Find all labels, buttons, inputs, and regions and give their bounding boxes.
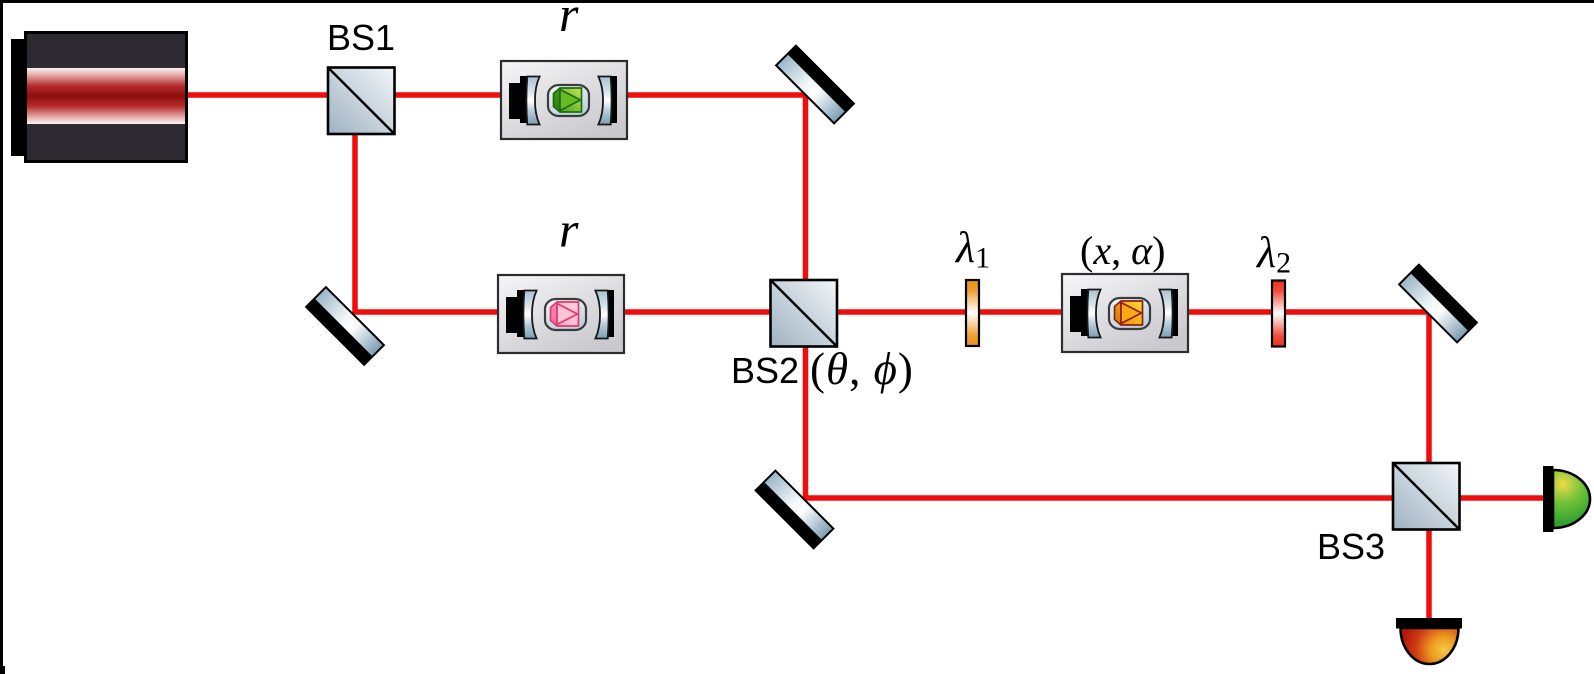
svg-text:r: r <box>559 0 579 42</box>
svg-text:r: r <box>559 202 579 258</box>
svg-text:BS1: BS1 <box>327 17 395 58</box>
svg-text:(x, α): (x, α) <box>1080 228 1165 273</box>
svg-text:BS3: BS3 <box>1317 526 1385 567</box>
svg-text:BS2: BS2 <box>731 350 799 391</box>
svg-text:(θ, ϕ): (θ, ϕ) <box>810 344 914 394</box>
